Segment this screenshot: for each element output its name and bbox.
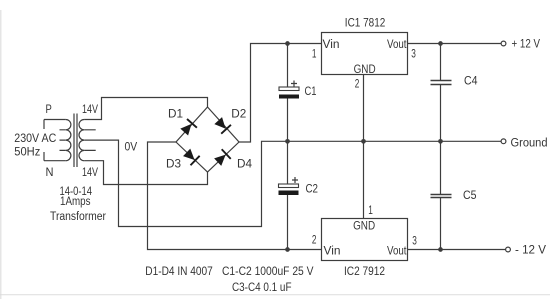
svg-text:+ 12 V: + 12 V xyxy=(512,38,541,50)
svg-text:C5: C5 xyxy=(463,190,477,202)
svg-text:P: P xyxy=(46,104,53,116)
svg-text:C1: C1 xyxy=(305,86,317,98)
svg-text:3: 3 xyxy=(411,49,416,61)
svg-text:0V: 0V xyxy=(125,142,138,154)
svg-text:GND: GND xyxy=(353,220,375,232)
svg-text:GND: GND xyxy=(354,64,376,76)
svg-text:D3: D3 xyxy=(166,159,181,171)
svg-text:50Hz: 50Hz xyxy=(14,147,40,159)
svg-text:C4: C4 xyxy=(464,76,478,88)
svg-text:D1-D4 IN 4007: D1-D4 IN 4007 xyxy=(145,266,213,278)
svg-text:230V AC: 230V AC xyxy=(14,133,56,145)
svg-text:Vout: Vout xyxy=(387,246,407,258)
svg-text:Vin: Vin xyxy=(323,39,340,51)
svg-text:IC1 7812: IC1 7812 xyxy=(345,17,386,29)
svg-text:3: 3 xyxy=(412,235,417,247)
svg-text:Transformer: Transformer xyxy=(50,211,106,223)
svg-text:14V: 14V xyxy=(82,167,98,179)
svg-text:1: 1 xyxy=(312,49,317,61)
svg-text:Vout: Vout xyxy=(387,39,407,51)
svg-text:1: 1 xyxy=(368,205,373,217)
svg-text:2: 2 xyxy=(355,79,360,91)
svg-text:C1-C2 1000uF 25 V: C1-C2 1000uF 25 V xyxy=(222,266,314,278)
svg-text:Vin: Vin xyxy=(324,246,341,258)
svg-text:1Amps: 1Amps xyxy=(60,196,91,208)
svg-text:D1: D1 xyxy=(168,108,183,120)
svg-text:Ground: Ground xyxy=(511,137,548,149)
svg-text:D4: D4 xyxy=(237,159,253,171)
svg-text:D2: D2 xyxy=(231,108,246,120)
svg-text:IC2 7912: IC2 7912 xyxy=(344,266,385,278)
svg-text:- 12 V: - 12 V xyxy=(515,244,546,256)
svg-text:2: 2 xyxy=(312,235,317,247)
svg-text:C3-C4 0.1 uF: C3-C4 0.1 uF xyxy=(232,282,292,294)
svg-text:N: N xyxy=(46,167,54,179)
svg-text:14V: 14V xyxy=(82,104,98,116)
svg-text:C2: C2 xyxy=(306,184,319,196)
